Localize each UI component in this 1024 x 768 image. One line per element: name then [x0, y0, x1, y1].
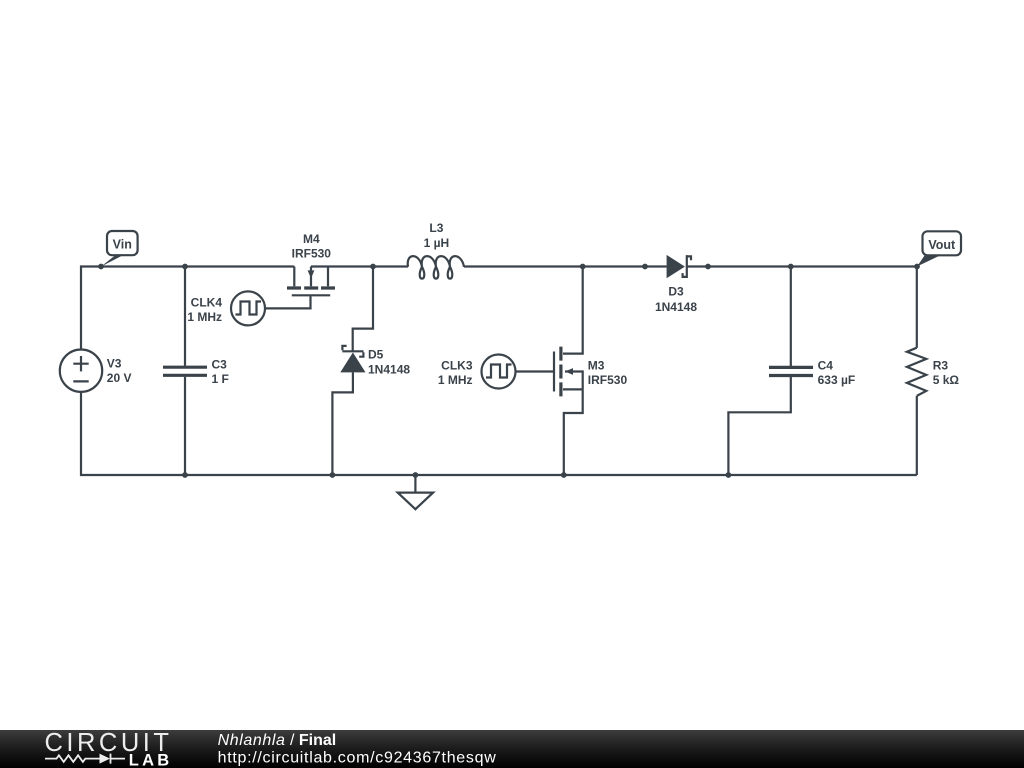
wire: D5 top branch	[353, 267, 373, 351]
wire: top rail from L3 to D3 anode	[464, 265, 667, 267]
node flag Vin	[101, 231, 137, 266]
node dot: C4 top	[788, 264, 794, 270]
svg-text:1N4148: 1N4148	[655, 300, 697, 314]
svg-text:Vin: Vin	[113, 238, 132, 252]
svg-text:1 F: 1 F	[212, 372, 229, 386]
node dot C3 top	[182, 264, 188, 270]
transistor M4 (NMOS, horizontal)	[287, 267, 335, 296]
voltage source V3	[60, 350, 102, 392]
label D3 value	[655, 285, 697, 314]
resistor R3	[907, 267, 926, 476]
wire: Vin left rail (top corner)	[81, 267, 294, 351]
wire: M3 source to ground rail	[564, 389, 583, 475]
wire: CLK4 to M4 gate	[265, 296, 311, 308]
svg-text:R3: R3	[933, 359, 949, 373]
label CLK3 value	[438, 359, 473, 388]
svg-text:IRF530: IRF530	[588, 373, 628, 387]
footer bar	[0, 730, 1024, 768]
node dot: D3 anode	[642, 264, 648, 270]
svg-text:L3: L3	[429, 221, 443, 235]
clock source CLK3	[482, 355, 516, 389]
svg-text:Vout: Vout	[928, 238, 956, 252]
svg-text:1 MHz: 1 MHz	[438, 373, 473, 387]
label V3 value	[107, 356, 132, 385]
wire: C3 bottom branch	[184, 377, 186, 475]
node Vout corner dot	[914, 264, 920, 270]
label D5 value	[368, 348, 410, 377]
wire: C3 top branch	[184, 267, 186, 366]
wire: CLK3 to M3 gate	[516, 370, 554, 372]
svg-text:V3: V3	[107, 356, 122, 370]
svg-text:1 µH: 1 µH	[424, 236, 450, 250]
node flag Vout	[917, 231, 961, 266]
capacitor C4	[769, 367, 813, 375]
inductor L3	[408, 256, 464, 279]
label CLK4 value	[187, 296, 222, 325]
svg-text:633 µF: 633 µF	[818, 373, 856, 387]
svg-text:IRF530: IRF530	[292, 247, 332, 261]
svg-text:1N4148: 1N4148	[368, 362, 410, 376]
svg-text:20 V: 20 V	[107, 371, 132, 385]
logo squiggle (resistor + diode)	[45, 754, 125, 764]
label C3 value	[212, 357, 229, 386]
wire: C4 top branch	[790, 267, 792, 367]
node dot: C4 bottom on rail	[726, 472, 732, 478]
svg-text:1 MHz: 1 MHz	[187, 310, 222, 324]
svg-text:Nhlanhla / Final: Nhlanhla / Final	[218, 732, 337, 749]
svg-text:M3: M3	[588, 359, 605, 373]
node dot: D5 bottom on rail	[330, 472, 336, 478]
wire: M3 drain drop	[563, 267, 583, 354]
transistor M3 (NMOS, vertical)	[554, 347, 583, 397]
wire: bottom ground rail	[81, 392, 917, 475]
svg-text:5 kΩ: 5 kΩ	[933, 373, 960, 387]
capacitor C3	[163, 367, 207, 375]
diode D3 (schottky, pointing right)	[667, 255, 691, 278]
wire: top rail from M4 to L3	[311, 265, 408, 267]
wire: top rail from D3 cathode to Vout corner	[687, 265, 917, 267]
wire: C4 bottom branch	[728, 377, 790, 475]
label C4 value	[818, 359, 856, 388]
svg-text:CLK3: CLK3	[441, 359, 473, 373]
node dot C3 bottom	[182, 472, 188, 478]
node dot: ground junction	[413, 472, 419, 478]
svg-text:D5: D5	[368, 348, 384, 362]
ground	[398, 475, 433, 509]
svg-text:C4: C4	[818, 359, 834, 373]
label M4 value	[292, 232, 332, 261]
svg-text:LAB: LAB	[129, 751, 173, 768]
node dot: D5 branch junction	[370, 264, 376, 270]
label L3 value	[424, 221, 450, 250]
node dot: D3 cathode	[705, 264, 711, 270]
svg-text:D3: D3	[668, 285, 684, 299]
label R3 value	[933, 359, 960, 388]
svg-text:M4: M4	[303, 232, 320, 246]
svg-text:C3: C3	[212, 357, 228, 371]
node dot: M3 drain junction	[580, 264, 586, 270]
diode D5 (schottky, pointing up)	[340, 346, 365, 373]
node dot: M3 source on rail	[561, 472, 567, 478]
wire: D5 bottom branch	[332, 372, 353, 475]
node Vin junction dot	[98, 264, 104, 270]
clock source CLK4	[231, 291, 265, 325]
svg-text:CLK4: CLK4	[191, 296, 223, 310]
svg-text:http://circuitlab.com/c924367t: http://circuitlab.com/c924367thesqw	[218, 750, 497, 767]
label M3 value	[588, 359, 628, 388]
